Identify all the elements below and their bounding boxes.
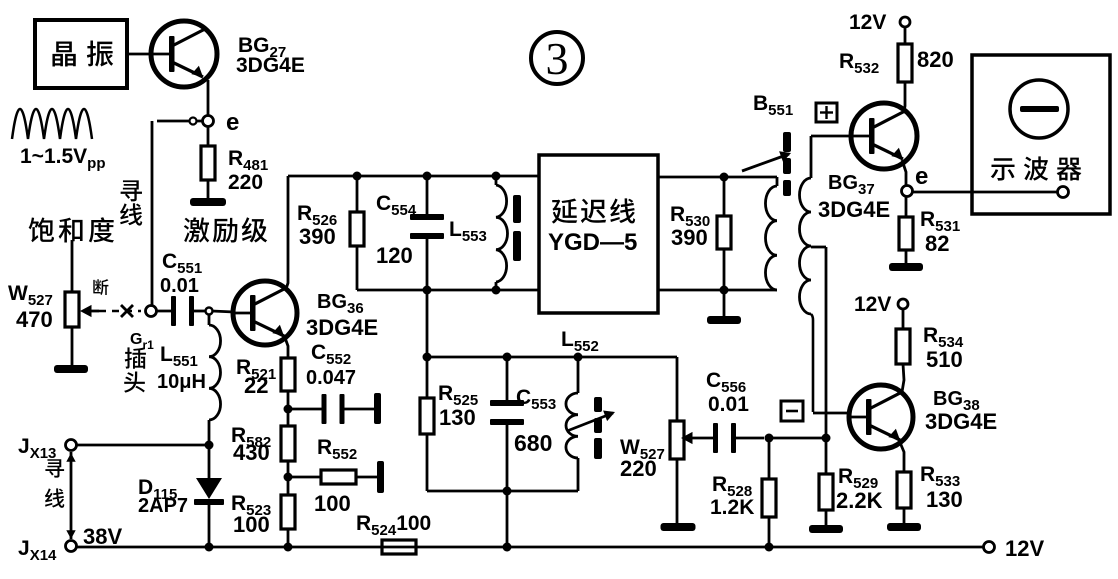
svg-text:470: 470	[16, 307, 53, 332]
svg-text:2.2K: 2.2K	[836, 488, 883, 513]
svg-text:220: 220	[228, 171, 263, 194]
svg-text:10μH: 10μH	[157, 371, 206, 393]
svg-text:22: 22	[244, 373, 268, 398]
svg-text:e: e	[226, 109, 239, 136]
svg-text:0.01: 0.01	[160, 275, 199, 297]
svg-text:3: 3	[546, 33, 569, 84]
svg-text:12V: 12V	[849, 11, 886, 34]
svg-text:100: 100	[314, 491, 351, 516]
svg-text:3DG4E: 3DG4E	[818, 197, 890, 222]
svg-text:100: 100	[233, 512, 270, 537]
svg-text:680: 680	[514, 430, 552, 456]
svg-text:430: 430	[233, 440, 270, 465]
svg-text:390: 390	[299, 224, 336, 249]
svg-text:2AP7: 2AP7	[138, 495, 188, 517]
svg-text:130: 130	[926, 487, 963, 512]
svg-text:e: e	[915, 163, 928, 190]
svg-text:0.047: 0.047	[306, 367, 356, 389]
svg-text:510: 510	[926, 347, 963, 372]
svg-text:3DG4E: 3DG4E	[306, 315, 378, 340]
svg-text:1.2K: 1.2K	[710, 496, 754, 519]
svg-text:130: 130	[439, 405, 476, 430]
svg-text:390: 390	[671, 225, 708, 250]
svg-text:120: 120	[376, 243, 413, 268]
svg-text:YGD—5: YGD—5	[548, 229, 637, 256]
svg-text:3DG4E: 3DG4E	[236, 54, 305, 77]
svg-text:12V: 12V	[1005, 536, 1044, 561]
svg-text:82: 82	[925, 231, 949, 256]
svg-text:3DG4E: 3DG4E	[925, 409, 997, 434]
svg-text:820: 820	[917, 47, 954, 72]
svg-text:12V: 12V	[854, 293, 891, 316]
svg-text:220: 220	[620, 456, 657, 481]
svg-text:0.01: 0.01	[708, 393, 749, 416]
svg-text:38V: 38V	[83, 524, 122, 549]
